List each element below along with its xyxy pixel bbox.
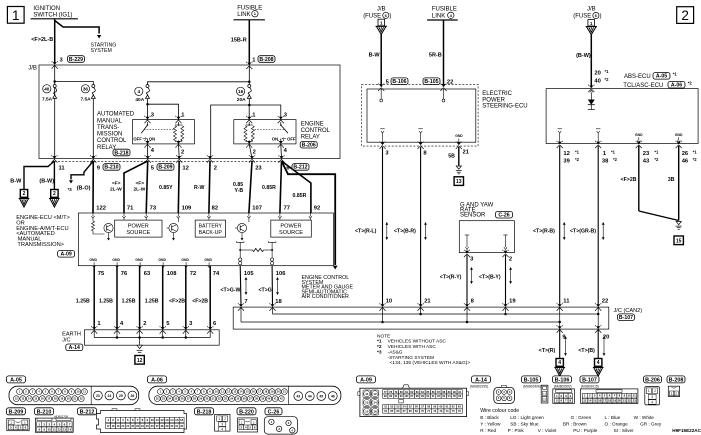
svg-text:ELECTRIC: ELECTRIC (482, 91, 512, 97)
svg-text:15: 15 (175, 418, 179, 422)
svg-text:11: 11 (543, 392, 546, 396)
connector B-218 (195, 408, 231, 432)
svg-text:26: 26 (682, 151, 689, 157)
svg-text:13: 13 (165, 418, 169, 422)
thick wire pin 6 branch to engine control system (282, 161, 338, 270)
svg-text:26: 26 (131, 394, 135, 398)
svg-text:POWER: POWER (482, 97, 505, 103)
svg-text:11: 11 (365, 392, 369, 396)
joint connector J/C CAN2 B-107 (233, 307, 642, 329)
bus internal drops (383, 307, 599, 329)
label ABS-ECU A-05 (624, 72, 677, 81)
svg-text:15: 15 (593, 399, 597, 403)
svg-text:(B-W): (B-W) (39, 179, 54, 185)
svg-text:1.25B: 1.25B (145, 298, 159, 304)
svg-text:*1: *1 (654, 150, 659, 155)
svg-text:23: 23 (96, 394, 100, 398)
svg-text:63: 63 (144, 271, 151, 277)
wire 5R-B fusible link 4 to steering ECU pin 22 (429, 20, 444, 87)
svg-text:2: 2 (53, 191, 56, 197)
svg-text:43: 43 (296, 394, 300, 398)
svg-text:<T>G: <T>G (259, 287, 272, 293)
svg-text:0.85R: 0.85R (262, 185, 276, 191)
ABS internal diode to ground (588, 90, 595, 109)
svg-text:11: 11 (156, 418, 160, 422)
svg-text:17: 17 (603, 399, 607, 403)
connector A-05 (7, 376, 139, 405)
svg-text:VEHICLES WITHOUT ASC: VEHICLES WITHOUT ASC (388, 339, 447, 345)
svg-text:24: 24 (108, 394, 112, 398)
svg-text:J/B: J/B (28, 66, 37, 72)
svg-text:B-229: B-229 (69, 57, 83, 63)
svg-text:46: 46 (331, 394, 335, 398)
svg-text:J/C (CAN2): J/C (CAN2) (614, 308, 643, 314)
svg-text:1.25B: 1.25B (122, 298, 136, 304)
svg-text:*2: *2 (654, 157, 659, 162)
connector B-212 (78, 408, 187, 433)
svg-text:B-206: B-206 (645, 377, 660, 383)
page number box 2 (677, 7, 694, 24)
svg-text:<T>(R-Y): <T>(R-Y) (440, 275, 462, 281)
svg-text:72: 72 (190, 271, 196, 277)
svg-text:<F>2L-B: <F>2L-B (31, 37, 53, 43)
svg-text:23: 23 (643, 151, 650, 157)
svg-text:OFF: OFF (133, 137, 142, 142)
svg-text:(MU801406): (MU801406) (523, 385, 541, 389)
svg-text:1: 1 (12, 8, 20, 23)
svg-text:*2: *2 (605, 77, 610, 82)
svg-text:B-212: B-212 (80, 409, 95, 415)
svg-text:16: 16 (598, 399, 602, 403)
svg-text:15: 15 (676, 238, 682, 244)
wire ABS ground 2B (621, 146, 639, 211)
svg-text:POWER: POWER (128, 223, 149, 229)
bus pin marks (238, 303, 602, 333)
svg-text:10: 10 (151, 418, 155, 422)
node pin 1 connector B-208 (246, 56, 275, 70)
svg-text:(B-W): (B-W) (576, 53, 591, 59)
svg-text:GND: GND (675, 133, 683, 137)
svg-text:GR : Grey: GR : Grey (640, 422, 662, 427)
ground ref box 15 (674, 236, 683, 245)
svg-text:36: 36 (83, 87, 89, 92)
svg-text:A-06: A-06 (671, 83, 682, 89)
engine ECU backup resistor network (236, 241, 276, 265)
engine ECU transistor 1 (92, 218, 114, 240)
svg-text:23: 23 (255, 165, 262, 171)
svg-text:3: 3 (651, 395, 653, 399)
svg-text:C-26: C-26 (498, 213, 509, 219)
svg-text:GND: GND (181, 258, 189, 262)
svg-text:SOURCE: SOURCE (279, 230, 303, 236)
svg-text:B : Black: B : Black (480, 415, 499, 420)
yaw sensor bottom pins 3 2 (464, 250, 512, 263)
svg-text:11: 11 (563, 299, 570, 305)
engine ECU GND pins (89, 258, 212, 267)
label engine control relay (300, 122, 330, 149)
wire (B-W) to page ref 2 (39, 161, 54, 190)
svg-text:38: 38 (602, 159, 609, 165)
svg-text:1: 1 (218, 417, 220, 421)
svg-text:<F>2B: <F>2B (192, 298, 208, 304)
svg-text:J/C: J/C (62, 337, 70, 343)
svg-text:13: 13 (365, 401, 369, 405)
svg-text:VEHICLES WITH ASC: VEHICLES WITH ASC (388, 344, 437, 350)
svg-text:R-W: R-W (194, 185, 204, 191)
svg-text:2: 2 (681, 8, 689, 23)
earth J/C internal bus (94, 330, 210, 345)
pin 11 (59, 165, 66, 171)
svg-text:7: 7 (244, 299, 247, 305)
J/B fuse 6 feed for power steering (363, 7, 391, 35)
wire pin 5 to ECU pins 71/73 (2L-W) (110, 161, 148, 213)
svg-text:11: 11 (59, 165, 66, 171)
connector B-107 (580, 376, 638, 404)
connector A-09 (357, 376, 469, 417)
svg-text:A-05: A-05 (10, 377, 22, 383)
svg-text:20A: 20A (237, 97, 246, 103)
svg-text:19: 19 (509, 299, 516, 305)
wire ECU ground 1.25B to earth J/C pin 2 (122, 266, 147, 334)
engine ECU transistor 2 (167, 218, 179, 240)
wire B-W J/B to steering ECU pin 5 (369, 34, 382, 86)
svg-text:4: 4 (138, 89, 141, 94)
svg-text:ON: ON (149, 137, 155, 142)
wire ECU pin 105 to bus pin 7 (221, 266, 248, 305)
svg-text:2: 2 (675, 392, 677, 396)
svg-text:MISSION: MISSION (97, 131, 122, 137)
pin 6 connector B-212 (286, 164, 309, 172)
svg-text:2: 2 (23, 191, 26, 197)
connector B-206 (644, 376, 662, 405)
svg-text:2: 2 (224, 417, 226, 421)
svg-text:TRANSMISSION>: TRANSMISSION> (17, 242, 64, 248)
svg-text:108: 108 (167, 271, 177, 277)
svg-text:Y-B: Y-B (235, 188, 244, 194)
svg-text:<T>(B-Y): <T>(B-Y) (479, 275, 501, 281)
svg-text:44: 44 (308, 394, 312, 398)
svg-text:21: 21 (623, 399, 627, 403)
svg-text:5B: 5B (448, 154, 455, 160)
wire ABS CAN L to bus pin 22 (570, 146, 608, 305)
svg-text:A-09: A-09 (360, 377, 372, 383)
svg-text:BR : Brown: BR : Brown (563, 422, 587, 427)
svg-text:2L-W: 2L-W (134, 186, 146, 192)
svg-text:FUSIBLE: FUSIBLE (237, 6, 262, 12)
connector B-210 (35, 408, 74, 433)
svg-text:<T>(GR-B): <T>(GR-B) (570, 229, 596, 235)
svg-text:14: 14 (588, 399, 592, 403)
svg-text:B-212: B-212 (293, 165, 307, 171)
earth J/C A-14 box (62, 330, 219, 351)
wire branch to starting system (55, 21, 117, 55)
svg-text:*3: *3 (68, 187, 73, 192)
svg-text:2L-W: 2L-W (110, 186, 122, 192)
svg-text:B-220: B-220 (239, 409, 254, 415)
svg-text:0.85R: 0.85R (293, 193, 307, 199)
svg-text:(MU802502): (MU802502) (554, 385, 572, 389)
pin 2 (214, 165, 217, 171)
pin 5 connector B-209 (151, 164, 174, 172)
svg-text:1: 1 (590, 21, 593, 26)
svg-text:10: 10 (386, 299, 392, 305)
svg-text:B-210: B-210 (104, 165, 118, 171)
svg-text:GND: GND (204, 258, 212, 262)
svg-text:<134, 135 (VEHICLES WITH AS&G): <134, 135 (VEHICLES WITH AS&G)> (390, 360, 471, 366)
svg-text:<T>(R): <T>(R) (539, 348, 556, 354)
page ref box 4 right (593, 359, 604, 377)
svg-text:<T>G-W: <T>G-W (221, 287, 241, 293)
svg-text:3B: 3B (668, 177, 675, 183)
node pin 5 connector B-106 (378, 78, 408, 91)
svg-text:PU : Purple: PU : Purple (573, 428, 597, 433)
svg-text:LG : Light green: LG : Light green (510, 415, 544, 420)
svg-text:<F>2B: <F>2B (621, 177, 637, 183)
engine ECU power source box 1 (115, 218, 162, 237)
page ref box 4 left (554, 359, 565, 377)
svg-text:IGNITION: IGNITION (33, 6, 60, 12)
svg-text:*2: *2 (613, 157, 618, 162)
engine ECU power source box 2 (271, 218, 312, 237)
engine ECU bottom pin labels (98, 271, 286, 277)
wire ABS ground 3B joins (639, 146, 682, 229)
fusible link 1 (234, 6, 265, 20)
engine ECU top pins (91, 205, 320, 218)
svg-text:2: 2 (214, 165, 217, 171)
svg-text:L : Blue: L : Blue (605, 415, 621, 420)
connector B-105 (522, 376, 548, 403)
svg-text:SYSTEM: SYSTEM (91, 48, 112, 54)
fuse 36 7.5A (81, 85, 96, 159)
wire bus pin 9 output <T>(R) (539, 329, 567, 358)
svg-text:MANUAL: MANUAL (97, 118, 123, 124)
svg-text:25: 25 (119, 394, 123, 398)
svg-text:16: 16 (373, 409, 377, 413)
connector A-14 (470, 376, 514, 404)
page ref box 2 left (19, 190, 30, 208)
svg-text:18: 18 (608, 399, 612, 403)
svg-text:B-105: B-105 (524, 377, 539, 383)
wire (B-O) *3 branch (68, 161, 94, 192)
svg-text:BATTERY: BATTERY (199, 223, 223, 229)
svg-text:106: 106 (276, 271, 286, 277)
steering ECU bottom pins 3 8 21 (379, 142, 469, 157)
engine ECU box A-09 (78, 213, 333, 266)
wire pin 6 branch to ECU pin 92 (0.85R) (282, 161, 311, 213)
fuse 4 40A (135, 85, 179, 120)
wire steering GND to earth 13 (448, 147, 462, 174)
svg-text:1: 1 (648, 389, 650, 393)
CAN bus bar A (CAN-L) (273, 307, 600, 315)
wire ignition to J/B pin 3 (2L-B) (31, 19, 55, 63)
fuse 40 7.5A (42, 85, 57, 103)
svg-text:*1: *1 (611, 150, 616, 155)
svg-text:0.85Y: 0.85Y (159, 185, 173, 191)
svg-text:BACK-UP: BACK-UP (199, 230, 223, 236)
wire ABS CAN H to bus pin 11 (533, 146, 570, 305)
svg-text:B-206: B-206 (302, 143, 316, 149)
steering ECU internal pin 22 (442, 89, 445, 102)
J/B fuse 6 feed for ABS (573, 7, 601, 35)
svg-text:39: 39 (563, 159, 570, 165)
svg-text:15: 15 (365, 409, 369, 413)
svg-text:GND: GND (135, 258, 143, 262)
svg-text:109: 109 (182, 205, 192, 211)
svg-text:*1: *1 (605, 69, 610, 74)
svg-text:2: 2 (143, 321, 146, 327)
wire pin 9 to ECU pin 122 (92, 161, 94, 213)
ABS / TCL-ASC ECU box (546, 89, 698, 144)
yaw sensor internal pins (465, 235, 508, 250)
svg-text:O : Orange: O : Orange (605, 422, 629, 427)
svg-text:5R-B: 5R-B (429, 52, 442, 58)
pin 9 connector B-210 (97, 164, 120, 172)
svg-text:22: 22 (628, 399, 632, 403)
relay: engine control relay B-206 (234, 112, 296, 155)
svg-text:16: 16 (180, 418, 184, 422)
fusible link 4 (427, 7, 458, 20)
wire pin 12 to ECU pin 109 (0.85Y) (159, 161, 179, 213)
pin 12 (182, 165, 188, 171)
svg-text:14: 14 (68, 427, 71, 431)
pin 23 (255, 165, 262, 171)
svg-text:1.25B: 1.25B (99, 298, 113, 304)
svg-text:GND: GND (89, 258, 97, 262)
svg-text:45: 45 (319, 394, 323, 398)
svg-text:-STARTING SYSTEM: -STARTING SYSTEM (388, 355, 434, 361)
engine ECU battery back-up box (195, 218, 225, 237)
svg-text:SB : Sky blue: SB : Sky blue (510, 422, 539, 427)
fuse 16 20A (211, 85, 281, 159)
svg-text:76: 76 (121, 271, 128, 277)
svg-text:AIR CONDITIONER: AIR CONDITIONER (302, 294, 350, 300)
svg-text:92: 92 (314, 205, 320, 211)
connector B-209 (6, 408, 29, 431)
svg-text:13: 13 (63, 427, 66, 431)
electric power steering ECU box (362, 84, 528, 146)
svg-text:ENGINE: ENGINE (301, 122, 324, 128)
svg-text:(FUSE: (FUSE (573, 14, 591, 20)
svg-text:): ) (389, 13, 391, 19)
svg-text:Wire colour code: Wire colour code (480, 408, 519, 414)
svg-text:AUTOMATED: AUTOMATED (97, 112, 135, 118)
svg-text:B-208: B-208 (259, 57, 273, 63)
svg-text:<T>(B): <T>(B) (578, 348, 595, 354)
svg-text:43: 43 (643, 159, 650, 165)
svg-text:107: 107 (252, 205, 262, 211)
svg-text:-AS&G: -AS&G (388, 349, 403, 355)
svg-text:14: 14 (373, 401, 377, 405)
ground ref box 12 (135, 356, 144, 365)
relay: automated manual transmission control relay B-218 (133, 112, 195, 155)
svg-text:LINK: LINK (432, 13, 445, 19)
svg-text:22: 22 (543, 397, 547, 401)
node pin 3 connector B-229 (52, 56, 85, 69)
wire colour code legend (480, 408, 662, 433)
svg-text:*1: *1 (693, 150, 698, 155)
wire ECU ground 1.25B to earth J/C pin 5 (145, 266, 171, 334)
svg-text:FUSIBLE: FUSIBLE (432, 7, 457, 13)
svg-text:4: 4 (651, 401, 653, 405)
svg-text:40A: 40A (135, 97, 144, 103)
svg-text:B-210: B-210 (37, 409, 52, 415)
svg-text:12: 12 (160, 418, 164, 422)
wire ECU pin 106 to bus pin 18 (259, 266, 283, 305)
wire (B-W) J/B to ABS ECU (576, 35, 591, 87)
svg-text:12: 12 (182, 165, 188, 171)
svg-text:CONTROL: CONTROL (301, 128, 331, 134)
svg-text:GND: GND (158, 258, 166, 262)
wire ECU ground 1.25B to earth J/C pin 1 (76, 266, 102, 334)
svg-text:GND: GND (112, 258, 120, 262)
svg-text:B-W: B-W (10, 179, 22, 185)
svg-text:CONTROL: CONTROL (97, 138, 127, 144)
svg-text:TCL/ASC-ECU: TCL/ASC-ECU (623, 83, 663, 89)
label AMT control relay (97, 112, 135, 157)
svg-text:SOURCE: SOURCE (126, 230, 150, 236)
svg-text:*1: *1 (377, 339, 382, 345)
svg-text:B-218: B-218 (197, 409, 212, 415)
svg-text:OFF: OFF (287, 137, 296, 142)
svg-text:13: 13 (456, 179, 462, 185)
ignition switch (IG1) (31, 6, 78, 19)
svg-text:B-209: B-209 (9, 409, 24, 415)
connector C-26 (264, 408, 297, 434)
svg-text:SWITCH (IG1): SWITCH (IG1) (33, 13, 72, 19)
svg-text:20: 20 (618, 399, 622, 403)
svg-text:TRANS-: TRANS- (97, 125, 119, 131)
svg-text:A-14: A-14 (69, 345, 80, 351)
svg-text:77: 77 (284, 205, 290, 211)
svg-text:ON: ON (272, 137, 278, 142)
svg-text:12: 12 (137, 358, 143, 364)
svg-text:Y : Yellow: Y : Yellow (480, 422, 501, 427)
ABS GND pins (635, 133, 683, 143)
svg-text:*2: *2 (693, 157, 698, 162)
wire inside J/B from ign to fuses (53, 65, 93, 159)
svg-text:J/B: J/B (377, 7, 386, 13)
svg-text:RELAY: RELAY (301, 135, 320, 141)
ABS bottom pins (557, 141, 698, 165)
svg-text:11: 11 (633, 394, 636, 398)
svg-text:*3: *3 (377, 349, 382, 355)
svg-text:B-208: B-208 (669, 377, 684, 383)
note block (377, 334, 470, 367)
svg-text:LINK: LINK (237, 12, 250, 18)
svg-text:12: 12 (373, 392, 377, 396)
svg-text:G : Green: G : Green (571, 415, 592, 420)
svg-text:(B-O): (B-O) (77, 186, 91, 192)
svg-text:B-209: B-209 (158, 165, 172, 171)
svg-text:4: 4 (221, 427, 223, 431)
svg-text:82: 82 (212, 205, 218, 211)
page number box 1 (7, 7, 24, 24)
label engine control system users (302, 275, 354, 300)
engine ECU transistor 3 (235, 218, 249, 240)
steering ECU internal CAN pins (380, 129, 423, 142)
svg-text:10: 10 (48, 427, 51, 431)
svg-text:1: 1 (671, 392, 673, 396)
svg-text:B-W: B-W (369, 52, 381, 58)
label engine ECU (16, 215, 74, 258)
page ref box 2 right (49, 190, 60, 208)
wire yaw CAN L to bus pin 19 (479, 255, 516, 305)
wire pin 23 to ECU pin 107 (0.85 Y-B) (233, 144, 252, 213)
svg-text:2: 2 (654, 389, 656, 393)
svg-text:B-107: B-107 (619, 315, 633, 321)
svg-text:*2: *2 (575, 157, 580, 162)
svg-text:10: 10 (628, 394, 632, 398)
